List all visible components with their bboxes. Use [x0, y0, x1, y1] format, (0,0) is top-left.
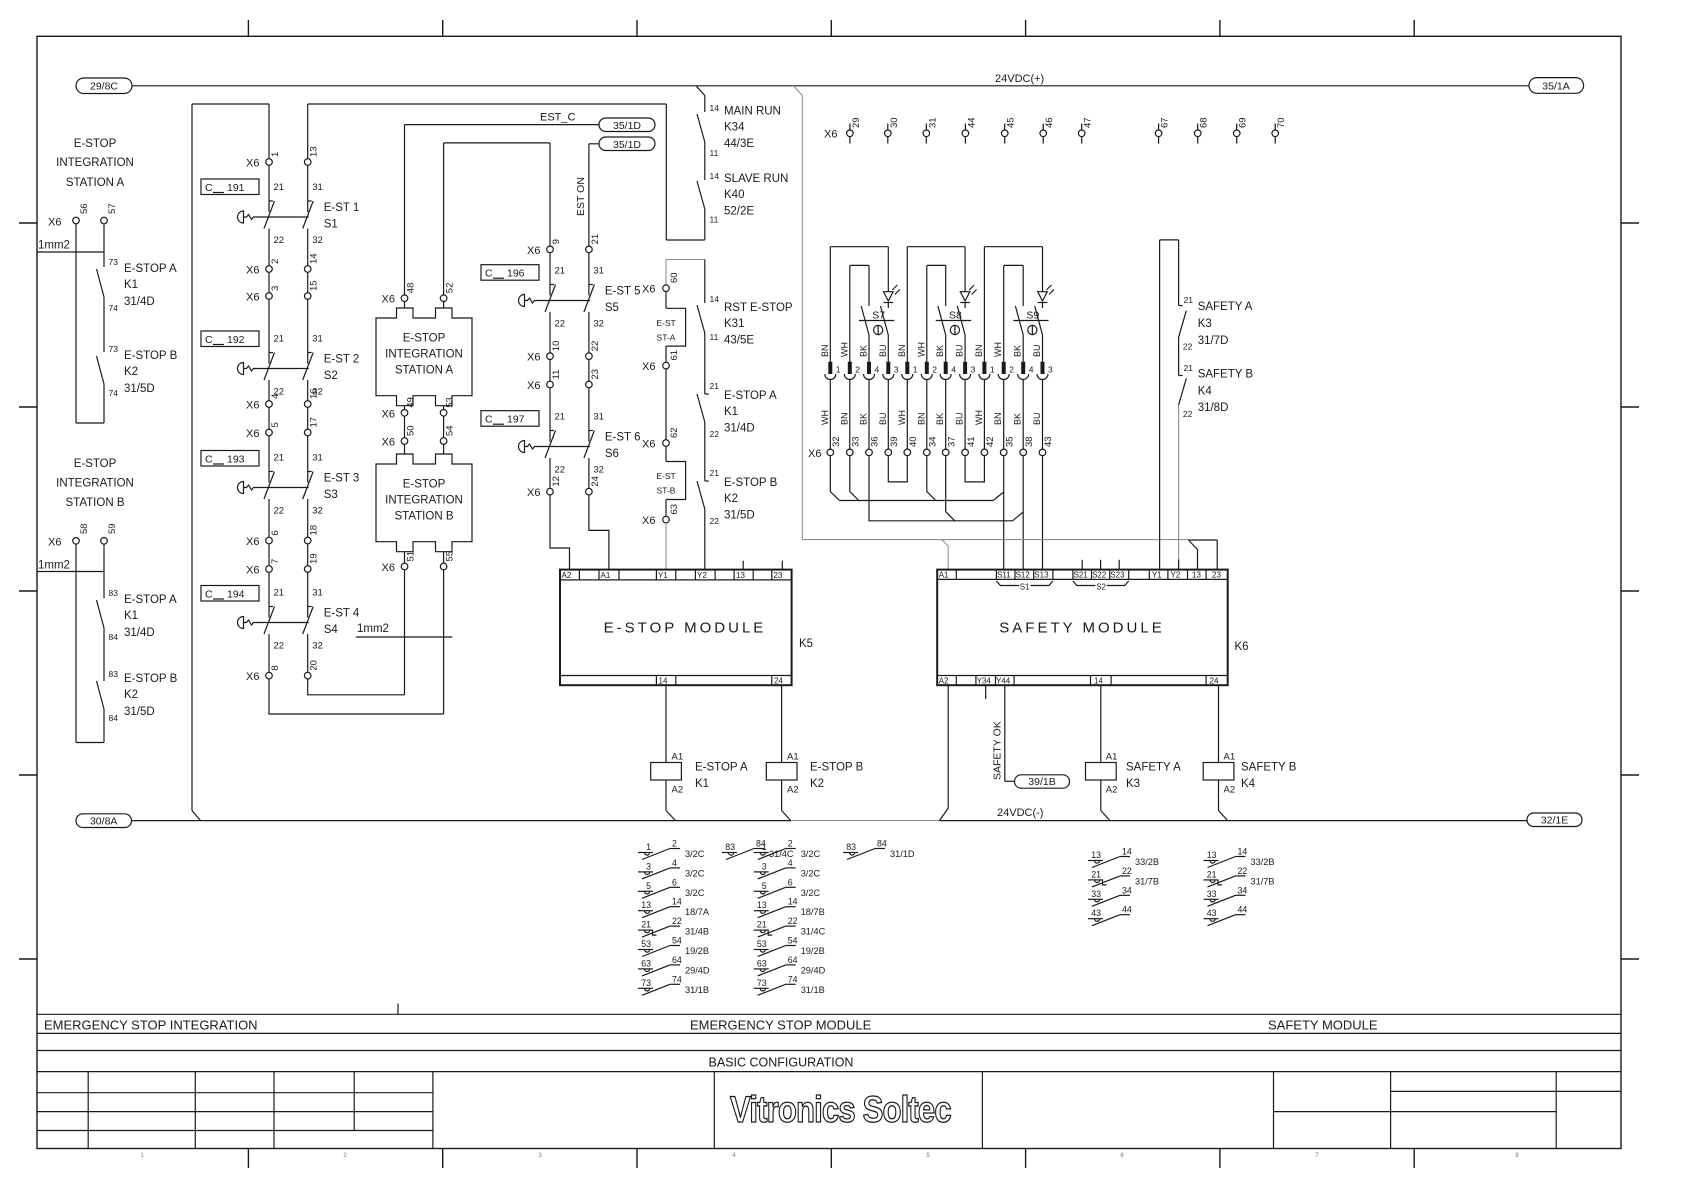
- svg-text:61: 61: [669, 350, 680, 361]
- svg-text:E-STOP B: E-STOP B: [810, 762, 864, 774]
- terminal X6:55: [440, 563, 447, 570]
- svg-text:S13: S13: [1034, 571, 1049, 580]
- svg-text:K3: K3: [1126, 778, 1140, 790]
- group bracket S2: [1073, 581, 1096, 586]
- svg-text:5: 5: [646, 881, 651, 891]
- svg-text:BK: BK: [935, 413, 945, 425]
- svg-text:44: 44: [1238, 905, 1248, 915]
- svg-text:A1: A1: [601, 571, 611, 580]
- svg-text:3/2C: 3/2C: [685, 868, 705, 878]
- svg-text:X6: X6: [48, 217, 61, 229]
- svg-text:73: 73: [109, 257, 119, 267]
- svg-text:S7: S7: [872, 310, 885, 322]
- terminal X6:54: [440, 438, 447, 445]
- terminal X6:52: [440, 295, 447, 302]
- svg-text:21: 21: [274, 453, 285, 464]
- svg-text:BN: BN: [993, 412, 1003, 425]
- svg-text:2: 2: [672, 839, 677, 849]
- svg-text:22: 22: [590, 341, 601, 352]
- wire: [704, 142, 706, 180]
- svg-text:2: 2: [932, 365, 937, 375]
- svg-text:Y34: Y34: [977, 677, 992, 686]
- wire loop X6:39-X6:40: [888, 456, 907, 482]
- terminal X6:46: [1042, 124, 1044, 131]
- svg-text:S2: S2: [1096, 583, 1106, 592]
- svg-text:STATION B: STATION B: [66, 497, 125, 509]
- destination arrow 32/1E: [1527, 813, 1582, 827]
- terminal X6:20: [304, 672, 311, 679]
- svg-text:24VDC(+): 24VDC(+): [995, 73, 1044, 85]
- svg-text:E-ST 5: E-ST 5: [605, 286, 641, 298]
- svg-text:X6: X6: [642, 439, 655, 451]
- svg-text:36: 36: [870, 436, 881, 447]
- terminal X6:69: [1236, 124, 1238, 131]
- svg-text:32: 32: [312, 235, 323, 246]
- wire coil K3 to 24VDC(-): [1100, 780, 1102, 811]
- destination arrow 35/1A: [1529, 78, 1584, 94]
- svg-text:13: 13: [1207, 850, 1217, 860]
- svg-text:68: 68: [1199, 117, 1210, 128]
- LED indicator of S7: [884, 292, 894, 301]
- terminal X6:13: [304, 159, 311, 166]
- svg-text:S4: S4: [324, 624, 339, 636]
- svg-text:X6: X6: [246, 536, 259, 548]
- terminal X6:31: [925, 124, 927, 131]
- svg-text:E-STOP: E-STOP: [74, 138, 117, 150]
- svg-text:22: 22: [1183, 342, 1193, 352]
- svg-text:20: 20: [309, 660, 320, 671]
- terminal X6:21: [586, 246, 593, 253]
- black box E-STOP INTEGRATION STATION B: [376, 454, 472, 552]
- safety module K6: [937, 570, 1227, 686]
- svg-text:3: 3: [762, 861, 767, 871]
- svg-text:34: 34: [928, 436, 939, 447]
- svg-text:22: 22: [788, 916, 798, 926]
- svg-text:E-ST 1: E-ST 1: [324, 202, 360, 214]
- terminal X6:17: [304, 429, 311, 436]
- terminal X6:29: [849, 124, 851, 131]
- svg-text:EMERGENCY STOP INTEGRATION: EMERGENCY STOP INTEGRATION: [44, 1018, 258, 1033]
- svg-text:X6: X6: [246, 158, 259, 170]
- svg-text:31: 31: [312, 453, 323, 464]
- connector C_194: [201, 586, 259, 602]
- svg-text:4: 4: [672, 858, 677, 868]
- svg-text:73: 73: [757, 978, 767, 988]
- svg-text:X6: X6: [382, 408, 395, 420]
- svg-text:31/1D: 31/1D: [890, 849, 915, 859]
- svg-text:196: 196: [507, 268, 525, 280]
- svg-text:31/4D: 31/4D: [124, 296, 155, 308]
- svg-text:21: 21: [555, 266, 566, 277]
- svg-text:K2: K2: [810, 778, 824, 790]
- svg-text:22: 22: [555, 319, 566, 330]
- svg-text:K1: K1: [124, 279, 138, 291]
- svg-text:A1: A1: [939, 571, 949, 580]
- svg-text:69: 69: [1238, 117, 1249, 128]
- svg-text:35/1A: 35/1A: [1542, 81, 1569, 93]
- svg-text:3: 3: [894, 365, 899, 375]
- svg-text:A2: A2: [1106, 785, 1118, 796]
- svg-text:14: 14: [1122, 847, 1132, 857]
- svg-text:31/7D: 31/7D: [1198, 335, 1229, 347]
- wire coil K2 to 24VDC(-): [781, 780, 783, 811]
- svg-text:83: 83: [725, 842, 735, 852]
- wire coil K1 to 24VDC(-): [665, 780, 667, 811]
- LED indicator of S9: [1038, 292, 1048, 301]
- svg-text:74: 74: [788, 974, 798, 984]
- svg-text:83: 83: [109, 588, 119, 598]
- svg-text:A2: A2: [939, 677, 949, 686]
- svg-text:BU: BU: [955, 344, 965, 357]
- svg-text:63: 63: [641, 958, 651, 968]
- relay coil E-STOP B K2: [766, 763, 797, 781]
- svg-text:64: 64: [788, 955, 798, 965]
- svg-text:14: 14: [672, 897, 682, 907]
- terminal X6:57: [101, 217, 108, 224]
- svg-text:MAIN RUN: MAIN RUN: [724, 106, 781, 118]
- svg-text:A1: A1: [672, 752, 684, 763]
- svg-text:EST_C: EST_C: [540, 112, 576, 124]
- svg-text:31/7B: 31/7B: [1251, 876, 1275, 886]
- svg-text:21: 21: [710, 468, 720, 478]
- svg-text:39/1B: 39/1B: [1028, 776, 1055, 788]
- svg-text:1: 1: [990, 365, 995, 375]
- wire stub module 13: [742, 561, 744, 570]
- svg-text:INTEGRATION: INTEGRATION: [56, 157, 134, 169]
- terminal X6:70: [1274, 124, 1276, 131]
- svg-text:S1: S1: [324, 219, 338, 231]
- contact RST E-STOP K31 43/5E (14-11): [704, 260, 706, 304]
- svg-text:K2: K2: [124, 689, 138, 701]
- svg-text:C: C: [205, 182, 213, 194]
- svg-text:42: 42: [985, 436, 996, 447]
- svg-text:21: 21: [590, 234, 601, 245]
- svg-text:X6: X6: [246, 428, 259, 440]
- svg-text:SAFETY MODULE: SAFETY MODULE: [999, 620, 1164, 637]
- svg-text:14: 14: [710, 171, 720, 181]
- svg-text:62: 62: [669, 427, 680, 438]
- svg-text:32: 32: [593, 319, 604, 330]
- svg-text:33: 33: [851, 436, 862, 447]
- safety switch S7 wiring loop: [830, 246, 888, 248]
- svg-text:54: 54: [672, 936, 682, 946]
- svg-text:STATION A: STATION A: [395, 364, 454, 376]
- terminal X6:47: [1081, 124, 1083, 131]
- terminal X6:19: [304, 566, 311, 573]
- svg-text:1mm2: 1mm2: [357, 623, 389, 635]
- svg-text:52: 52: [445, 283, 456, 294]
- svg-text:K3: K3: [1198, 318, 1212, 330]
- svg-text:ST-A: ST-A: [657, 333, 676, 343]
- svg-text:WH: WH: [974, 410, 984, 425]
- svg-text:54: 54: [445, 425, 456, 436]
- svg-text:18/7A: 18/7A: [685, 907, 710, 917]
- svg-text:22: 22: [1238, 866, 1248, 876]
- connector C_197: [481, 411, 539, 427]
- svg-text:WH: WH: [897, 410, 907, 425]
- wire: [103, 628, 105, 681]
- svg-text:X6: X6: [642, 515, 655, 527]
- svg-text:13: 13: [1192, 571, 1201, 580]
- svg-text:43: 43: [1043, 436, 1054, 447]
- wire: [665, 369, 667, 440]
- wire 24VDC(+) feed to safety module: [793, 86, 802, 96]
- svg-text:73: 73: [109, 344, 119, 354]
- svg-text:K40: K40: [724, 189, 744, 201]
- svg-text:3: 3: [1048, 365, 1053, 375]
- wire loop back to chain A: [704, 209, 706, 240]
- svg-text:22: 22: [274, 235, 285, 246]
- svg-text:51: 51: [406, 551, 417, 562]
- net S11 wiring: [830, 456, 839, 501]
- svg-text:31/4C: 31/4C: [801, 927, 826, 937]
- LED indicator of S8: [960, 292, 970, 301]
- wire chain A right column: [307, 104, 309, 159]
- svg-text:74: 74: [672, 974, 682, 984]
- svg-text:E-STOP: E-STOP: [403, 478, 446, 490]
- svg-text:S2: S2: [324, 370, 338, 382]
- svg-text:13: 13: [757, 900, 767, 910]
- svg-text:192: 192: [227, 334, 245, 346]
- terminal X6:24: [586, 488, 593, 495]
- contact block of S7: [887, 303, 889, 309]
- wire stub module 23: [781, 561, 783, 570]
- svg-text:S12: S12: [1016, 571, 1031, 580]
- wire chain A top to MAIN RUN loop: [308, 103, 667, 105]
- terminal X6:67: [1158, 124, 1160, 131]
- net S12 wiring: [869, 456, 1023, 521]
- wire from X6:58: [75, 544, 77, 742]
- svg-text:ST-B: ST-B: [657, 486, 676, 496]
- wire from X6:55 down: [443, 570, 445, 714]
- svg-text:S5: S5: [605, 302, 619, 314]
- svg-text:SAFETY B: SAFETY B: [1198, 369, 1254, 381]
- net SAFETY OK from Y44: [1004, 685, 1006, 781]
- svg-text:X6: X6: [246, 265, 259, 277]
- svg-text:21: 21: [1207, 869, 1217, 879]
- svg-text:4: 4: [788, 858, 793, 868]
- destination arrow 35/1D: [599, 137, 655, 151]
- svg-text:6: 6: [672, 877, 677, 887]
- svg-text:K2: K2: [724, 493, 738, 505]
- connector C_191: [201, 179, 259, 195]
- svg-text:A2: A2: [787, 785, 799, 796]
- svg-text:11: 11: [710, 148, 719, 158]
- svg-text:5: 5: [762, 881, 767, 891]
- svg-text:X6: X6: [527, 487, 540, 499]
- terminal X6:18: [304, 537, 311, 544]
- svg-text:A2: A2: [672, 785, 684, 796]
- svg-text:67: 67: [1160, 117, 1171, 128]
- svg-text:8: 8: [270, 665, 281, 670]
- svg-text:X6: X6: [527, 380, 540, 392]
- svg-text:4: 4: [1029, 365, 1034, 375]
- svg-text:37: 37: [946, 436, 957, 447]
- svg-text:WH: WH: [820, 410, 830, 425]
- svg-text:73: 73: [641, 978, 651, 988]
- svg-text:12: 12: [551, 476, 562, 487]
- svg-text:S9: S9: [1026, 310, 1039, 322]
- svg-text:19/2B: 19/2B: [685, 946, 709, 956]
- svg-text:31/5D: 31/5D: [124, 706, 155, 718]
- svg-text:31/8D: 31/8D: [1198, 402, 1229, 414]
- connector C_193: [201, 451, 259, 467]
- svg-text:S22: S22: [1092, 571, 1107, 580]
- svg-text:22: 22: [1183, 409, 1193, 419]
- svg-text:4: 4: [270, 394, 281, 399]
- svg-text:15: 15: [309, 280, 320, 291]
- svg-text:13: 13: [1091, 850, 1101, 860]
- svg-text:BU: BU: [955, 412, 965, 425]
- svg-text:1: 1: [762, 842, 767, 852]
- svg-text:BN: BN: [897, 344, 907, 357]
- svg-text:K2: K2: [124, 366, 138, 378]
- svg-text:17: 17: [309, 417, 320, 428]
- svg-text:49: 49: [406, 397, 417, 408]
- svg-text:31/5D: 31/5D: [124, 383, 155, 395]
- svg-text:E-ST 3: E-ST 3: [324, 473, 360, 485]
- svg-text:21: 21: [274, 182, 285, 193]
- svg-text:14: 14: [710, 294, 720, 304]
- svg-text:3/2C: 3/2C: [685, 888, 705, 898]
- svg-text:11: 11: [710, 332, 719, 342]
- svg-text:41: 41: [966, 436, 977, 447]
- wire module Y1 up to safety contacts: [1159, 240, 1161, 570]
- svg-text:A2: A2: [1224, 785, 1236, 796]
- svg-text:A2: A2: [562, 571, 572, 580]
- svg-text:14: 14: [1238, 847, 1248, 857]
- wire module 14 to coil K1: [665, 685, 667, 762]
- wire module 24 to coil K2: [781, 685, 783, 762]
- svg-text:74: 74: [109, 303, 119, 313]
- wire X6:63 to module Y1: [665, 523, 667, 570]
- svg-text:E-STOP MODULE: E-STOP MODULE: [604, 620, 767, 637]
- svg-text:WH: WH: [916, 342, 926, 357]
- svg-text:84: 84: [109, 713, 119, 723]
- contact SAFETY A K3 31/7D (21-22): [1178, 240, 1180, 306]
- svg-text:64: 64: [672, 955, 682, 965]
- svg-text:33: 33: [1207, 889, 1217, 899]
- wire from X6:51 down: [404, 570, 406, 695]
- title block grid: [87, 1072, 89, 1149]
- svg-text:31/4D: 31/4D: [724, 423, 755, 435]
- svg-text:55: 55: [445, 551, 456, 562]
- svg-text:9: 9: [551, 239, 562, 244]
- wire: [103, 297, 105, 352]
- wire from 24VDC(+) bus: [696, 86, 705, 96]
- svg-text:C: C: [205, 454, 213, 466]
- svg-text:40: 40: [908, 436, 919, 447]
- wire from X6:57: [103, 224, 105, 267]
- svg-text:11: 11: [551, 370, 562, 380]
- section bar: [37, 1013, 1621, 1015]
- svg-text:1: 1: [270, 152, 281, 157]
- svg-text:BK: BK: [859, 345, 869, 357]
- svg-text:Vitronics Soltec: Vitronics Soltec: [730, 1090, 951, 1131]
- svg-text:31/1B: 31/1B: [801, 985, 825, 995]
- svg-text:A1: A1: [1224, 752, 1236, 763]
- svg-text:X6: X6: [527, 352, 540, 364]
- svg-text:44: 44: [966, 117, 977, 128]
- safety switch S8 wiring loop: [907, 246, 965, 248]
- svg-text:INTEGRATION: INTEGRATION: [385, 494, 463, 506]
- svg-text:STATION A: STATION A: [66, 177, 125, 189]
- svg-text:C: C: [485, 414, 493, 426]
- svg-text:E-STOP A: E-STOP A: [695, 762, 748, 774]
- wire module 24 to coil K4: [1218, 685, 1220, 762]
- connector C_192: [201, 331, 259, 347]
- wire module 14 to coil K3: [1100, 685, 1102, 762]
- svg-text:14: 14: [710, 103, 720, 113]
- svg-text:29/8C: 29/8C: [90, 81, 118, 93]
- terminal X6:30: [887, 124, 889, 131]
- wire station A terminal 52 to X6:9: [443, 143, 445, 295]
- wire X6:38 to module S12: [1022, 456, 1024, 570]
- svg-text:E-STOP B: E-STOP B: [124, 673, 178, 685]
- svg-text:34: 34: [1122, 885, 1132, 895]
- svg-text:31/4B: 31/4B: [685, 927, 709, 937]
- svg-text:K4: K4: [1241, 778, 1256, 790]
- svg-text:38: 38: [1024, 436, 1035, 447]
- svg-text:35/1D: 35/1D: [613, 120, 641, 132]
- svg-text:21: 21: [274, 588, 285, 599]
- svg-text:21: 21: [555, 412, 566, 423]
- svg-text:63: 63: [757, 958, 767, 968]
- svg-text:29/4D: 29/4D: [801, 965, 826, 975]
- terminal X6:15: [304, 293, 311, 300]
- svg-text:21: 21: [641, 920, 651, 930]
- svg-text:SAFETY MODULE: SAFETY MODULE: [1268, 1018, 1378, 1033]
- svg-text:24: 24: [774, 677, 783, 686]
- svg-text:18/7B: 18/7B: [801, 907, 825, 917]
- svg-text:K1: K1: [124, 610, 138, 622]
- svg-text:47: 47: [1083, 117, 1094, 128]
- wire stub module S23: [1118, 560, 1120, 570]
- svg-text:33: 33: [1091, 889, 1101, 899]
- svg-text:56: 56: [79, 203, 90, 214]
- svg-text:Y1: Y1: [1152, 571, 1162, 580]
- svg-text:18: 18: [309, 525, 320, 536]
- svg-text:1mm2: 1mm2: [38, 560, 70, 572]
- svg-text:22: 22: [274, 641, 285, 652]
- svg-text:STATION B: STATION B: [395, 510, 454, 522]
- svg-text:SAFETY A: SAFETY A: [1198, 301, 1253, 313]
- svg-text:C: C: [205, 589, 213, 601]
- svg-text:E-ST 2: E-ST 2: [324, 354, 360, 366]
- net EST ON: [589, 143, 599, 145]
- svg-text:K31: K31: [724, 318, 744, 330]
- svg-text:31: 31: [312, 334, 323, 345]
- svg-text:SAFETY B: SAFETY B: [1241, 762, 1297, 774]
- svg-text:SLAVE RUN: SLAVE RUN: [724, 173, 788, 185]
- wire: [1178, 337, 1180, 375]
- svg-text:Y1: Y1: [658, 571, 668, 580]
- svg-text:E-STOP A: E-STOP A: [124, 263, 177, 275]
- destination arrow 39/1B: [1015, 775, 1070, 788]
- svg-text:K34: K34: [724, 122, 745, 134]
- svg-text:K1: K1: [695, 778, 709, 790]
- svg-text:X6: X6: [382, 562, 395, 574]
- svg-text:35/1D: 35/1D: [613, 139, 641, 151]
- svg-text:30/8A: 30/8A: [90, 815, 117, 827]
- svg-text:14: 14: [1094, 677, 1103, 686]
- destination arrow 35/1D: [599, 118, 655, 132]
- svg-text:21: 21: [274, 334, 285, 345]
- svg-text:1: 1: [646, 842, 651, 852]
- svg-text:1: 1: [836, 365, 841, 375]
- svg-text:194: 194: [227, 589, 245, 601]
- svg-text:2: 2: [1009, 365, 1014, 375]
